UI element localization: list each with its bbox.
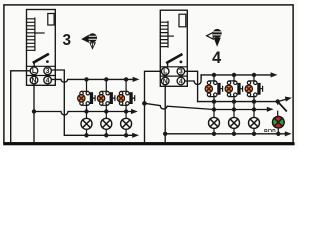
timer U4 switch lever: [167, 55, 181, 63]
wire 4 (right): right with hop, up, top button bus: [185, 75, 272, 85]
svg-text:חרום: חרום: [264, 128, 276, 134]
timer U3 lever pivot stub: [33, 62, 35, 67]
svg-text:4: 4: [212, 49, 221, 67]
wire L: from terminal L left then down: [11, 71, 31, 142]
timer U4 scale pointer tick: [168, 35, 173, 37]
bottom bus (right) from N: [165, 133, 285, 135]
timer U3 scale pointer tick: [35, 32, 44, 34]
timer U4 terminal row lines: [160, 67, 187, 76]
timer U4 dial window: [179, 14, 186, 27]
mid bus N with hop over wire 3: [34, 112, 132, 116]
illuminated pushbutton S2: [97, 77, 115, 114]
wire N (right): down: [164, 85, 166, 142]
terminal 4 (right block): [177, 77, 185, 85]
wire 3: right, down, feeds bottom lamp bus: [51, 70, 64, 135]
wire 3 (right): right, down, feeds button-return bus: [185, 71, 198, 101]
bottom lamp bus from wire 3: [65, 134, 134, 136]
terminal 4: [44, 76, 52, 84]
lamp E5: [229, 110, 240, 137]
lamp E2: [101, 112, 112, 138]
illuminated pushbutton S6: [245, 73, 263, 112]
illuminated pushbutton S1: [78, 77, 95, 114]
terminal N (right block): [161, 77, 169, 85]
node: emergency tap on button-return bus: [276, 99, 280, 103]
wire L (right): left then down: [145, 71, 162, 142]
wire N: from terminal N down: [33, 84, 35, 142]
timer U4 box: [160, 10, 187, 86]
arrow: button-return bus tilted: [285, 97, 292, 102]
node: N to lamp bus junction: [32, 109, 36, 113]
button-return bus from wire 3: [198, 99, 287, 101]
arrow: top bus (right): [271, 72, 278, 77]
timer U3 box: [27, 10, 56, 86]
emergency lamp (red/green): [273, 116, 285, 136]
lamp E3: [121, 112, 132, 138]
timer U3 scale comb: [27, 18, 35, 51]
terminal L (right block): [161, 68, 169, 76]
emergency switch wire: [277, 102, 279, 117]
timer U4 scale comb: [160, 22, 168, 48]
lamp E1: [81, 112, 92, 138]
lamp E6: [249, 110, 260, 137]
svg-text:3: 3: [179, 69, 183, 76]
timer U3 contact dot: [46, 60, 49, 63]
node: N to bottom bus junction: [163, 132, 167, 136]
arrow: bottom bus: [132, 133, 139, 138]
illuminated pushbutton S3: [117, 77, 134, 114]
arrow: lamp-top bus: [267, 107, 274, 112]
node: L to lamp-top bus junction: [142, 101, 147, 106]
pushbutton icon (fig 3): [81, 33, 97, 50]
lamp-top bus from L with hop over N wire: [144, 103, 267, 109]
timer U3 dial window: [48, 14, 54, 26]
illuminated pushbutton S4: [205, 73, 223, 112]
timer U3 terminal row lines: [27, 66, 56, 75]
svg-text:3: 3: [63, 32, 72, 49]
emergency switch blade: [279, 103, 286, 111]
illuminated pushbutton S5: [225, 73, 243, 112]
lamp E4: [209, 110, 220, 137]
svg-text:3: 3: [46, 68, 50, 75]
terminal L (left): [30, 67, 38, 75]
terminal 3: [44, 67, 52, 75]
svg-text:L: L: [163, 69, 167, 76]
arrow: mid bus: [131, 109, 138, 114]
svg-text:L: L: [32, 68, 36, 75]
terminal N: [30, 76, 38, 84]
pushbutton icon (fig 4): [207, 29, 222, 47]
terminal 3 (right block): [177, 68, 185, 76]
arrow: bottom bus (right): [285, 131, 292, 136]
timer U4 contact dot: [180, 61, 183, 64]
border frame: [4, 5, 293, 143]
arrow: top bus: [133, 77, 140, 82]
timer U4 lever pivot stub: [167, 62, 169, 67]
wire 4 / top button bus with hop over wire 3: [51, 79, 133, 82]
svg-text:4: 4: [179, 78, 183, 85]
svg-text:4: 4: [46, 77, 50, 84]
timer U3 switch lever: [34, 54, 48, 62]
